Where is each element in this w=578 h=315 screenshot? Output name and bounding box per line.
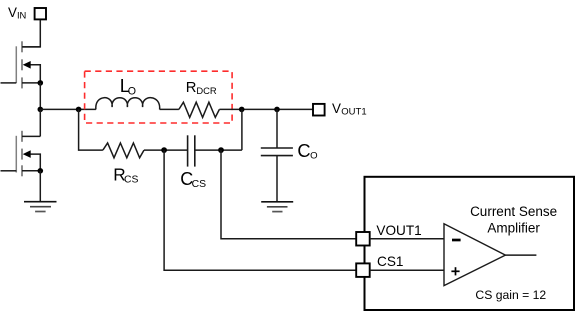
wire LO to RDCR <box>160 108 179 110</box>
wire CCS-right node to VOUT1 input <box>221 150 356 239</box>
svg-text:CS gain = 12: CS gain = 12 <box>475 288 546 302</box>
pin minus <box>452 239 461 242</box>
dashed DCR highlight box <box>85 71 233 123</box>
ground (CO) <box>261 202 293 212</box>
node rail-RCS branch junction <box>76 107 82 113</box>
wire VOUT1 pin to op-amp inverting input <box>370 238 444 240</box>
pin plus <box>451 267 459 275</box>
terminal VOUT1 <box>313 104 325 116</box>
wire VIN to Q1 drain <box>22 20 40 47</box>
node SW junction <box>38 107 44 113</box>
terminal CS1 (box pin) <box>356 263 370 277</box>
transistor Q2 (low-side NMOS) <box>1 131 44 177</box>
amplifier box U1 <box>365 177 575 310</box>
wire CO to ground <box>276 156 278 202</box>
terminal VIN <box>35 8 46 19</box>
resistor RCS <box>103 143 144 158</box>
capacitor CCS <box>188 135 195 166</box>
node CO top junction <box>274 107 280 113</box>
ground (power stage) <box>24 202 57 212</box>
node CCS right junction <box>218 147 224 153</box>
capacitor CO <box>261 148 293 156</box>
svg-text:CS1: CS1 <box>377 254 403 269</box>
resistor RDCR <box>179 102 220 117</box>
terminal VOUT1 (box pin) <box>356 232 370 246</box>
wire Q2 source to ground <box>39 171 41 202</box>
wire RDCR to output node <box>219 108 313 110</box>
wire CCS to up-branch <box>195 149 242 151</box>
op-amp A1 <box>444 224 505 286</box>
wire rail to RCS row <box>79 109 103 150</box>
svg-text:Amplifier: Amplifier <box>487 221 540 236</box>
wire CO branch <box>276 109 278 147</box>
wire switch node rail <box>40 108 96 110</box>
node RCS-CCS junction <box>161 147 167 153</box>
wire RCS to CCS <box>144 149 187 151</box>
wire Q1 source to switch node <box>39 83 41 110</box>
node CCS top junction <box>239 107 245 113</box>
inductor LO <box>96 98 160 110</box>
wire SW to Q2 drain <box>39 109 41 136</box>
wire op-amp output <box>505 254 536 256</box>
transistor Q1 (high-side NMOS) <box>1 41 44 88</box>
wire up from CCS right to rail <box>241 109 243 150</box>
svg-text:Current Sense: Current Sense <box>470 204 557 219</box>
wire CS1 pin to op-amp non-inverting input <box>370 269 444 271</box>
svg-text:VOUT1: VOUT1 <box>376 223 421 238</box>
wire CCS-left node to CS1 input <box>164 150 356 270</box>
